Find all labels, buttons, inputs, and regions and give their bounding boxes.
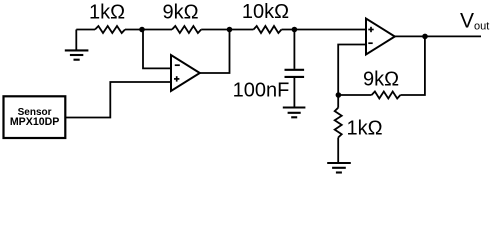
resistor R3 [254, 26, 282, 33]
capacitor C1 [285, 30, 305, 108]
wire [338, 94, 371, 96]
svg-text:10kΩ: 10kΩ [242, 1, 289, 23]
svg-text:MPX10DP: MPX10DP [10, 116, 59, 128]
sensor box MPX10DP [4, 96, 66, 138]
node C [292, 27, 298, 33]
resistor R1 [95, 26, 125, 33]
wire [337, 138, 339, 164]
node B [227, 27, 233, 33]
node A [139, 27, 145, 33]
op-amp U1 [171, 55, 200, 91]
wire [338, 45, 366, 108]
svg-text:9kΩ: 9kΩ [363, 68, 399, 90]
resistor R5 [335, 108, 342, 138]
wire [143, 30, 171, 69]
svg-text:1kΩ: 1kΩ [89, 2, 125, 24]
node D [336, 92, 342, 98]
op-amp U2 [366, 19, 395, 55]
ground [65, 30, 89, 60]
resistor R2 [172, 26, 201, 33]
wire [76, 29, 95, 31]
ground [327, 163, 351, 173]
wire [125, 29, 172, 31]
wire [282, 29, 367, 31]
svg-text:100nF: 100nF [233, 80, 290, 102]
ground [283, 108, 306, 118]
wire [395, 35, 481, 37]
wire [201, 29, 253, 31]
svg-text:9kΩ: 9kΩ [162, 2, 198, 24]
wire [200, 30, 230, 74]
resistor R4 [372, 92, 401, 99]
node E [422, 34, 428, 40]
svg-text:Vout: Vout [460, 9, 489, 32]
svg-text:1kΩ: 1kΩ [346, 118, 382, 140]
wire [65, 82, 171, 118]
wire [400, 36, 425, 95]
